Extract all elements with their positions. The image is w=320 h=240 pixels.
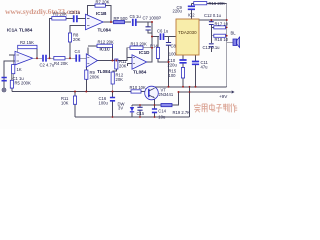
svg-text:BL: BL [231,31,237,36]
svg-text:R5 200K: R5 200K [15,81,32,86]
svg-text:C4: C4 [75,49,81,54]
battery rail [179,87,231,117]
wire IC1C feedback [88,46,113,61]
wire inv input IC1A [9,54,15,56]
wire speaker return [227,4,233,87]
resistor R2 15K [18,40,37,49]
wire input to C1 [4,61,15,88]
svg-text:R7 20K: R7 20K [96,0,110,5]
svg-text:TL084: TL084 [133,70,147,75]
wire R11 chain [113,59,117,72]
wire IC1C out to IC1D [98,58,133,61]
svg-text:220u: 220u [173,8,183,13]
svg-text:20K: 20K [73,37,81,42]
svg-text:C5 1u: C5 1u [130,14,142,19]
terminal +9V [219,91,234,99]
svg-text:2N3441: 2N3441 [159,92,174,97]
op-amp U1D IC1D [132,50,150,75]
wire IC1D noninv stub [128,64,133,67]
supply rail filtered [155,86,227,88]
wire node B down IC1D out [147,22,152,62]
svg-text:R10 10K: R10 10K [130,85,147,90]
wire collector [154,87,156,88]
watermark chinese text [194,104,237,113]
svg-text:TL084: TL084 [98,27,112,32]
wire IC1D feedback [127,48,152,58]
svg-text:IC1D: IC1D [139,50,150,55]
wire R9 stub [85,64,87,92]
capacitor C4 1u [75,49,81,62]
op-amp U1C IC1C [86,47,110,75]
svg-text:R18 10: R18 10 [215,37,229,42]
capacitor C8 1000P [166,43,181,57]
svg-text:1K: 1K [17,67,22,72]
svg-text:R16 20K: R16 20K [209,1,226,6]
svg-text:R13 20K: R13 20K [131,42,148,47]
resistor R16 20K [194,1,225,6]
speaker BL [231,31,240,48]
svg-text:IC2: IC2 [188,13,195,18]
svg-text:R3 20K: R3 20K [53,11,67,16]
transistor Q1 VT [145,86,174,100]
wire C2 to R4 [47,57,54,59]
wire R14 stub [158,37,169,63]
svg-text:C14: C14 [158,109,166,114]
resistor RP 500 [114,16,129,24]
resistor R4 20K [54,57,68,67]
wire R12 to rail [112,84,114,92]
svg-text:20K: 20K [119,64,127,69]
svg-text:10K: 10K [61,101,69,106]
wire C5 to node B [137,21,153,23]
capacitor C11 47u [192,60,209,70]
wire C7 stub [148,22,152,33]
wire C8 stub [168,37,170,87]
capacitor C15 0.05u [137,107,145,116]
capacitor C12 0.1u [204,13,222,25]
wire IC1A output [33,57,42,59]
zener diode DW 3V [118,101,135,112]
resistor R5 200K [10,74,31,88]
capacitor C3 1u [69,10,81,22]
capacitor C10 220u [168,58,187,67]
svg-text:RP 500: RP 500 [114,16,129,21]
capacitor C9 220u [173,5,196,14]
svg-text:IC1B: IC1B [96,11,107,16]
capacitor C13 0.1u [203,44,221,50]
resistor R7 20K feedback IC1B [95,0,110,7]
wire R17 ladder [211,27,226,35]
wire R4 to C4 [65,57,76,59]
svg-text:220u: 220u [168,62,178,67]
wire IC1B feedback [88,6,112,22]
wire emitter chain [132,92,179,105]
svg-text:R19 2.7K: R19 2.7K [173,110,191,115]
wire RP to C5 [125,21,132,23]
wire IC1A feedback [18,49,37,59]
svg-text:100u: 100u [99,101,109,106]
wire C3 to IC1B [78,17,86,19]
wire C14 stubs [154,105,156,117]
wire R8 to node A [69,42,71,58]
svg-text:C13 0.1u: C13 0.1u [203,45,221,50]
capacitor C7 1000P [143,15,162,30]
wire IC1B noninv to R8 [70,26,86,34]
resistor R13 20K feedback IC1D [130,42,147,50]
capacitor C14 10u [152,109,167,120]
capacitor C16 100u [99,96,116,106]
wire zener to gnd [131,105,133,117]
resistor R11b 10K [61,96,77,106]
wire C12 stub [210,20,212,52]
wire C6 to TDA pin1 [165,36,177,38]
resistor R8 20K [68,33,80,43]
svg-text:200K: 200K [90,75,100,80]
wire R1 stub [12,55,14,80]
svg-text:R17 10: R17 10 [215,21,229,26]
svg-text:C2 4.7u: C2 4.7u [40,62,55,67]
bias rail [12,91,131,93]
capacitor C5 1u [130,14,142,26]
resistor R14 20K [150,44,160,59]
svg-text:IC1C: IC1C [100,47,111,52]
svg-text:20K: 20K [116,77,124,82]
wire TDA pin2 bottom [182,55,184,87]
svg-text:+9V: +9V [219,94,228,99]
wire to C6 [152,36,159,38]
resistor R11 20K [115,59,127,69]
wire R3 tap vertical [50,18,52,58]
svg-text:R4 20K: R4 20K [54,61,68,66]
svg-text:C3 1u: C3 1u [69,10,81,15]
wire R10 to base [141,91,149,93]
resistor R17 10 [214,21,229,29]
capacitor C1 1u [2,61,25,88]
wire C16 stubs [112,92,114,118]
op-amp U1B IC1B [86,11,112,32]
wire TDA pin3 bottom [195,55,197,87]
svg-text:47u: 47u [201,65,209,70]
watermark url text [5,7,81,16]
resistor R19 2.7K [161,104,190,116]
ground rail bottom [75,116,190,118]
wire R16 to output node [207,3,227,5]
svg-text:R2 15K: R2 15K [20,40,34,45]
resistor R1 1K [12,65,22,74]
wire R11b stubs [74,92,76,118]
resistor R15 100 [169,68,185,79]
input terminal [2,88,6,92]
wire IC1B output to RP [103,21,113,23]
capacitor C2 4.7u [40,55,55,68]
resistor R10 10K [130,85,147,93]
junction dots [36,19,228,118]
wire TDA out to speaker [199,19,227,21]
wire R5 to bias rail [11,88,13,92]
svg-text:IC1A: IC1A [7,28,18,33]
svg-text:TL084: TL084 [97,69,111,74]
svg-text:C7 1000P: C7 1000P [143,15,162,20]
wire C15 stubs [139,105,141,117]
resistor R12 20K [111,72,124,84]
resistor R12f 20K feedback IC1C [97,40,114,48]
IC U2 TDA2030 [176,13,199,56]
op-amp U1A IC1A [7,28,33,65]
resistor R9 200K [85,70,100,80]
svg-text:10u: 10u [158,115,166,120]
svg-text:3V: 3V [118,105,123,110]
capacitor C6 1u [157,29,169,40]
svg-text:C6 1u: C6 1u [157,29,169,34]
svg-text:TL084: TL084 [19,28,33,33]
svg-text:R12 20K: R12 20K [98,40,115,45]
svg-text:TDA2030: TDA2030 [178,30,197,35]
resistor R18 10 [214,34,229,42]
wire TDA pin5 top [191,4,193,20]
wire R3 to C3 [66,17,73,19]
svg-text:100: 100 [169,73,177,78]
svg-text:C12 0.1u: C12 0.1u [204,13,222,18]
svg-text:C15: C15 [137,111,145,116]
wire C4 to IC1C [80,57,86,59]
resistor R3 20K [52,11,67,20]
